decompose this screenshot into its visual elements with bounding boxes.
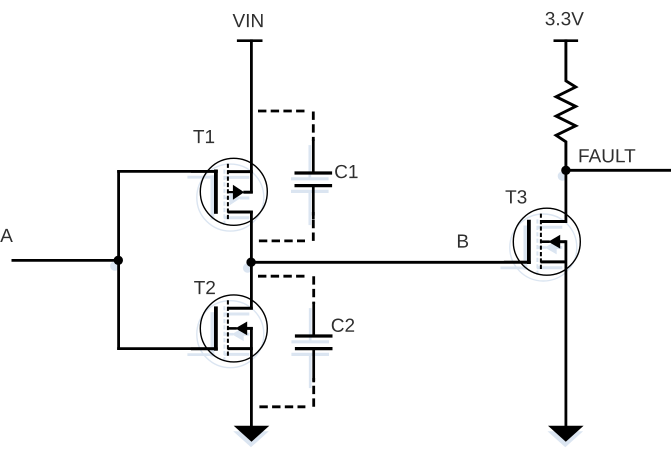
node B junction [246, 258, 255, 267]
wire FAULT node to T3 drain [565, 170, 568, 223]
wire T3 body/source down to ground [565, 240, 568, 426]
label FAULT [580, 149, 636, 162]
label T1 [193, 130, 214, 143]
node A junction [114, 256, 123, 265]
label A [0, 229, 13, 242]
capacitor C2 [295, 302, 333, 382]
transistor T3 [504, 208, 580, 275]
label T3 [506, 190, 527, 203]
VIN power bar [237, 39, 263, 42]
wire dashed C1 bottom [259, 239, 305, 242]
resistor R1 zigzag with leads [556, 39, 576, 170]
label C1 [335, 165, 357, 178]
wire T2 source down to ground [250, 327, 253, 426]
wire dashed C1 top [258, 110, 305, 113]
label C2 [332, 319, 354, 332]
ground symbol shadows [233, 431, 583, 447]
wire dashed C2 right upper [312, 276, 315, 304]
3.3V power bar [554, 39, 579, 42]
wire dashed C2 top [258, 275, 305, 278]
wire dashed C1 right upper [312, 112, 315, 142]
wire node A horizontal [12, 259, 120, 262]
ground left [234, 426, 270, 442]
wire left vertical gate bus [117, 170, 120, 350]
wire VIN rail down to T1 body stub [250, 39, 253, 193]
wire node B horizontal to T3 gate [251, 261, 530, 264]
wire FAULT horizontal to edge [565, 169, 671, 172]
wire to T2 gate [117, 347, 216, 350]
wire dashed C2 right lower [312, 378, 315, 407]
capacitor C1 [295, 139, 333, 219]
label B [458, 235, 468, 248]
label 3.3V [546, 12, 584, 25]
wire dashed C1 right lower [312, 212, 315, 241]
wire T1 source to node B to T2 drain [250, 211, 253, 310]
ground right [548, 426, 584, 442]
wire to T1 gate [117, 170, 216, 173]
transistor T1 [191, 158, 267, 225]
wire dashed C2 bottom [259, 405, 305, 408]
label T2 [194, 281, 215, 294]
node FAULT junction [561, 166, 570, 175]
label VIN [233, 14, 263, 27]
transistor T2 [191, 295, 267, 362]
